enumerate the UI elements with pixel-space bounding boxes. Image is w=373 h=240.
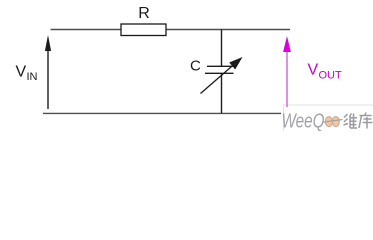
Vout arrow	[283, 36, 291, 107]
resistor R	[121, 24, 166, 36]
svg-text:R: R	[138, 5, 150, 22]
wire capacitor branch top	[221, 30, 223, 67]
svg-text:IN: IN	[27, 71, 38, 83]
svg-text:C: C	[190, 58, 201, 75]
svg-text:V: V	[16, 64, 27, 81]
svg-text:OUT: OUT	[319, 70, 343, 82]
capacitor C (variable)	[201, 57, 243, 94]
Vin arrow	[45, 35, 51, 109]
svg-text:WeeQ: WeeQ	[282, 111, 325, 132]
watermark background box	[283, 105, 373, 131]
svg-text:V: V	[308, 62, 319, 79]
watermark WeeQoo	[282, 111, 343, 133]
watermark char 维	[344, 114, 358, 129]
watermark char 库	[359, 113, 373, 129]
wire top rail (Vin node to Vout node)	[51, 29, 291, 31]
label VOUT	[308, 62, 343, 82]
wire bottom rail	[43, 112, 281, 114]
label VIN	[16, 64, 38, 84]
wire capacitor branch bottom	[221, 73, 223, 113]
